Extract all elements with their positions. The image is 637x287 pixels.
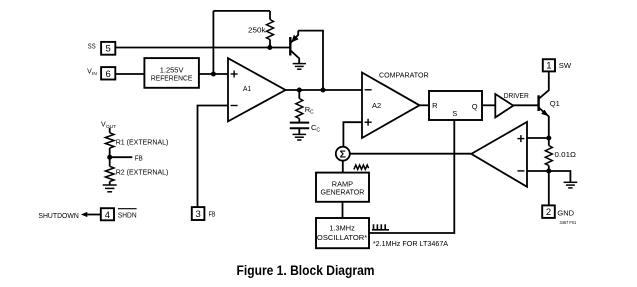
node 250k/SS junction: [267, 45, 272, 50]
ground (sense): [564, 182, 578, 188]
ramp waveform icon: [354, 165, 369, 169]
svg-text:3467 F01: 3467 F01: [560, 220, 577, 225]
wire VOUT stem: [109, 128, 111, 133]
svg-text:SS: SS: [88, 43, 96, 50]
arrow shutdown: [81, 212, 101, 217]
svg-text:OUT: OUT: [106, 124, 116, 130]
svg-text:Q1: Q1: [550, 99, 560, 108]
svg-text:4: 4: [105, 210, 110, 221]
node RC junction: [297, 88, 302, 93]
node sense - junction: [546, 169, 551, 174]
wire to GND pin: [548, 171, 550, 205]
wire driver to Q1 base: [513, 104, 538, 106]
transistor Q PNP soft-start clamp: [290, 31, 299, 64]
note 2.1MHz: [373, 239, 448, 248]
VOUT label: [101, 121, 116, 130]
reference box 1.255V REFERENCE: [144, 58, 199, 88]
ground (PNP collector): [293, 64, 306, 70]
svg-text:COMPARATOR: COMPARATOR: [379, 70, 429, 79]
svg-text:GND: GND: [557, 208, 574, 217]
wire oscillator to latch S: [369, 120, 454, 233]
wire SS to transistor base: [115, 47, 290, 49]
svg-text:GENERATOR: GENERATOR: [321, 188, 365, 197]
pin 1 SW label: [559, 61, 572, 70]
svg-text:2: 2: [546, 207, 551, 218]
capacitor CC: [290, 123, 309, 129]
svg-text:DRIVER: DRIVER: [504, 91, 530, 100]
svg-text:1.3MHz: 1.3MHz: [329, 224, 355, 233]
svg-text:0.01Ω: 0.01Ω: [555, 150, 577, 159]
svg-text:C: C: [310, 110, 314, 116]
pin 4 SHDN label with overline: [118, 209, 137, 220]
op-amp A1: [228, 58, 286, 121]
pin 1 box: [543, 59, 555, 71]
wire emitter rail: [298, 31, 323, 90]
svg-text:1: 1: [546, 61, 551, 72]
svg-text:IN: IN: [92, 71, 97, 77]
svg-text:FB: FB: [209, 210, 216, 219]
svg-text:REFERENCE: REFERENCE: [151, 74, 193, 83]
summing node sigma: [336, 147, 350, 161]
wire reference output to A1 +: [199, 73, 228, 75]
pin 5 box: [101, 42, 115, 55]
node ref/feedback junction: [211, 72, 216, 77]
wire vertical 250k feedback: [212, 11, 214, 74]
wire sigma to current amp: [349, 153, 471, 155]
svg-text:Q: Q: [472, 102, 478, 111]
driver triangle: [495, 94, 513, 117]
svg-text:R: R: [432, 101, 438, 110]
wire ramp gen to oscillator: [342, 202, 344, 218]
comparator A2: [362, 73, 420, 139]
pin 4 box: [101, 208, 114, 221]
resistor RC: [296, 90, 303, 122]
svg-text:SHUTDOWN: SHUTDOWN: [38, 211, 78, 220]
node FB divider: [107, 155, 112, 160]
wire A2 out to R: [420, 104, 430, 106]
pin 3 FB label: [209, 210, 216, 219]
pin 5 SS label: [88, 43, 96, 50]
resistor R2 (EXTERNAL): [105, 157, 114, 185]
DRIVER label: [504, 91, 530, 100]
oscillator box 1.3MHz: [316, 218, 369, 248]
square wave icon: [372, 224, 389, 230]
resistor 0.01 ohm: [545, 138, 552, 171]
resistor R1 (EXTERNAL): [105, 133, 114, 157]
wire FB stub: [110, 156, 133, 158]
note 3467 F01: [560, 220, 577, 225]
wire sigma to ramp generator: [342, 160, 344, 172]
SHUTDOWN label: [38, 211, 78, 220]
svg-text:Figure 1. Block Diagram: Figure 1. Block Diagram: [237, 263, 375, 278]
latch RS box: [429, 91, 482, 120]
pin 6 box: [101, 67, 115, 80]
title Figure 1. Block Diagram: [237, 263, 375, 278]
svg-text:250k: 250k: [248, 26, 266, 35]
svg-text:*2.1MHz FOR LT3467A: *2.1MHz FOR LT3467A: [373, 239, 448, 248]
current sense amp: [471, 122, 527, 187]
svg-text:Σ: Σ: [340, 148, 346, 160]
svg-text:6: 6: [106, 69, 111, 80]
node emitter rail junction: [321, 88, 326, 93]
wire A2 + input: [343, 122, 362, 147]
svg-text:C: C: [316, 128, 320, 134]
svg-text:R1 (EXTERNAL): R1 (EXTERNAL): [116, 137, 169, 146]
pin 2 box: [542, 205, 555, 218]
wire VIN to reference: [115, 73, 144, 75]
wire sense +: [527, 137, 549, 139]
wire sense -: [527, 170, 549, 172]
resistor 250k: [267, 11, 274, 48]
wire A1 - input to FB pin: [198, 106, 229, 208]
svg-text:A1: A1: [243, 84, 251, 93]
svg-text:OSCILLATOR*: OSCILLATOR*: [317, 233, 367, 242]
node FB label: [135, 154, 143, 163]
ground (CC): [293, 134, 307, 140]
svg-text:SHDN: SHDN: [118, 210, 137, 219]
svg-text:R2 (EXTERNAL): R2 (EXTERNAL): [116, 167, 169, 176]
transistor Q1: [539, 71, 560, 138]
svg-text:A2: A2: [372, 101, 381, 110]
ground (R2): [103, 185, 117, 192]
svg-text:FB: FB: [135, 154, 143, 163]
svg-text:5: 5: [106, 44, 111, 55]
COMPARATOR label: [379, 70, 429, 79]
svg-text:3: 3: [195, 209, 200, 220]
svg-text:SW: SW: [559, 61, 572, 70]
pin 3 box: [192, 207, 205, 220]
wire top: [213, 10, 270, 12]
node emitter/sense junction: [546, 136, 551, 141]
pin 2 GND label: [557, 208, 574, 217]
wire A1 output to A2: [286, 89, 363, 91]
wire Q to driver: [482, 104, 495, 106]
svg-text:S: S: [452, 109, 457, 118]
ramp generator box: [316, 173, 369, 202]
wire to ground branch: [549, 171, 571, 182]
pin 6 VIN label: [87, 69, 97, 78]
